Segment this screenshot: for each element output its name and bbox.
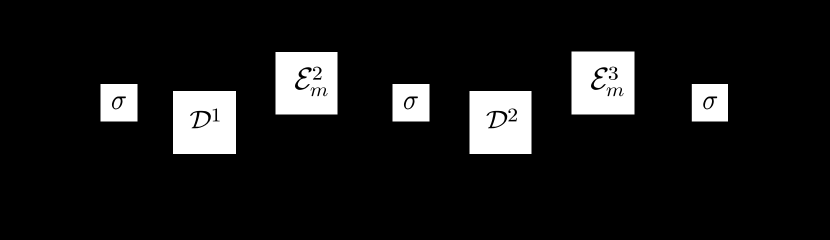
glyph sigma-3	[703, 96, 717, 109]
node box sigma-3	[692, 84, 728, 122]
node box E2	[276, 52, 338, 115]
glyph calligraphic E of E2	[295, 67, 312, 90]
glyph calligraphic E of E3	[591, 67, 608, 90]
glyph superscript 3 of E3	[609, 67, 618, 80]
glyph subscript m of E3	[607, 87, 624, 96]
glyph sigma-1	[112, 96, 126, 109]
glyph superscript 2 of E2	[313, 67, 322, 80]
node box E3	[572, 52, 635, 115]
node box sigma-1	[101, 84, 138, 122]
glyph superscript 2 of D2	[508, 108, 517, 121]
glyph calligraphic D of D2	[486, 111, 507, 128]
glyph sigma-2	[404, 96, 418, 109]
node box D1	[173, 91, 236, 154]
node box sigma-2	[393, 84, 430, 122]
node box D2	[470, 91, 532, 154]
glyph calligraphic D of D1	[190, 111, 211, 128]
glyph superscript 1 of D1	[213, 108, 220, 121]
glyph subscript m of E2	[311, 87, 328, 96]
